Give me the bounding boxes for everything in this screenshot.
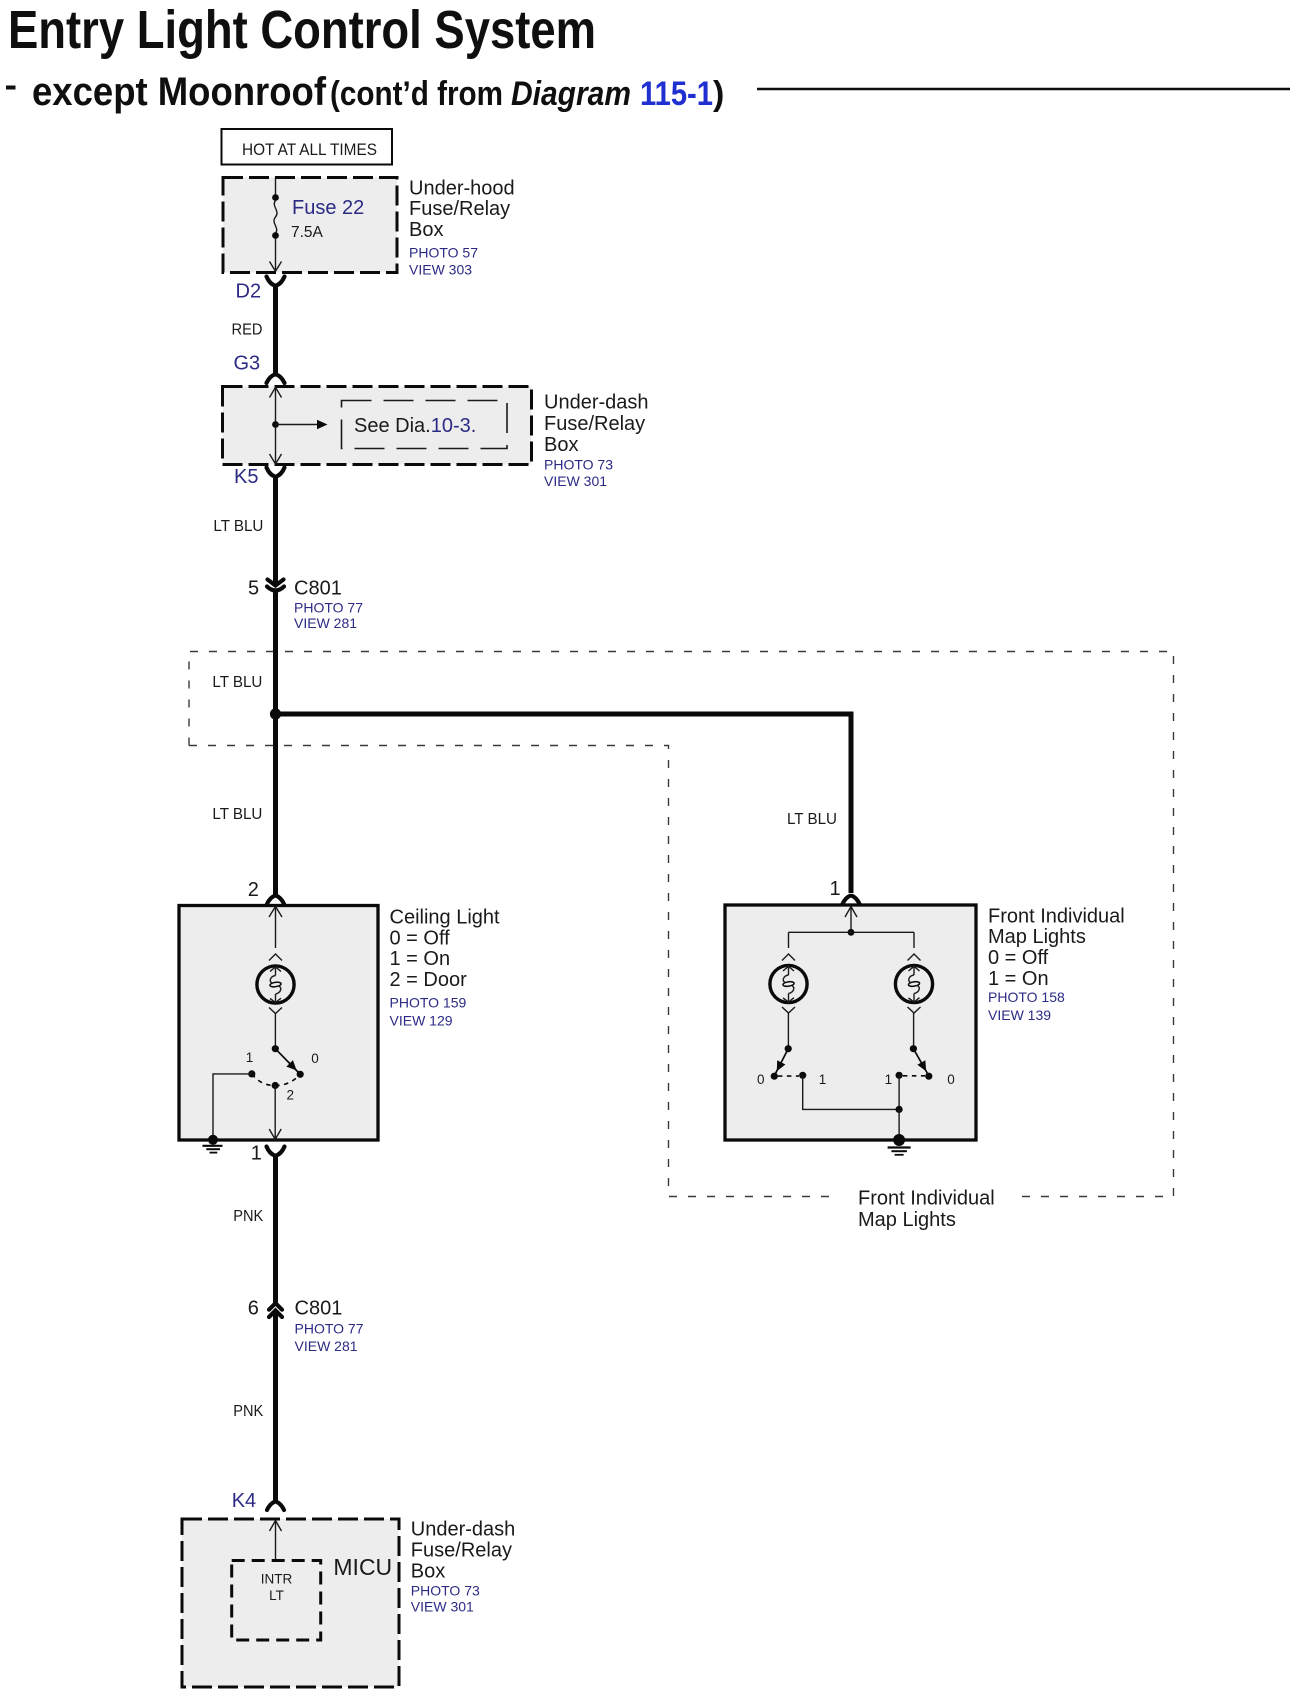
map lights ground G [888,1134,911,1155]
svg-text:K4: K4 [232,1490,256,1512]
map lights input lead with arrow [789,906,915,948]
title [8,0,596,60]
svg-text:VIEW 301: VIEW 301 [411,1599,474,1615]
connector D2 [236,277,285,303]
left map switch position dots 0 1 [757,1072,826,1087]
right map switch common node [910,1045,917,1052]
svg-text:Entry Light Control System: Entry Light Control System [8,0,596,60]
svg-text:VIEW 139: VIEW 139 [988,1007,1051,1023]
left map switch lever to position 0 [773,1049,789,1074]
svg-text:): ) [713,75,724,113]
svg-text:INTR: INTR [261,1572,293,1587]
svg-text:PNK: PNK [233,1403,264,1420]
svg-text:0: 0 [311,1051,319,1066]
svg-text:Under-dash: Under-dash [411,1518,516,1540]
svg-text:VIEW 301: VIEW 301 [544,473,607,489]
connector ceiling light pin 2 [248,879,284,904]
right map bulb B3 [895,965,932,1002]
connector C801 pin 6 [248,1298,364,1355]
wire PNK C801 to K4 [233,1311,275,1503]
svg-text:LT BLU: LT BLU [787,811,837,828]
svg-text:PHOTO 159: PHOTO 159 [390,995,467,1011]
dashed region label front individual map lights [858,1188,995,1231]
svg-text:PNK: PNK [233,1208,264,1225]
svg-text:PHOTO 158: PHOTO 158 [988,989,1065,1005]
svg-text:1: 1 [830,878,841,900]
svg-text:MICU: MICU [333,1554,392,1580]
svg-text:5: 5 [248,578,259,600]
svg-text:HOT AT ALL TIMES: HOT AT ALL TIMES [242,141,377,159]
right map switch dashed throw [903,1075,925,1077]
wire LT BLU C801-junction [212,593,275,715]
junction node [270,708,281,719]
left map switch common node [785,1045,792,1052]
svg-text:VIEW 303: VIEW 303 [409,262,472,278]
svg-text:Map Lights: Map Lights [988,926,1086,948]
svg-text:Front Individual: Front Individual [988,905,1125,927]
svg-text:C801: C801 [294,578,342,600]
svg-text:PHOTO 57: PHOTO 57 [409,244,478,260]
right map switch lever to position 0 [913,1049,930,1074]
svg-text:VIEW 129: VIEW 129 [390,1012,453,1028]
connector G3 [234,353,285,384]
svg-text:Front Individual: Front Individual [858,1188,995,1210]
connector K4 [232,1490,284,1512]
svg-text:Box: Box [411,1561,445,1583]
wire LT BLU K5-C801 [213,476,275,584]
wire LT BLU junction to map lights [276,714,852,893]
svg-text:2: 2 [248,879,259,901]
svg-text:1: 1 [246,1050,254,1065]
left map bulb socket chevron bottom [782,1007,795,1046]
right map switch position dots 1 0 [885,1072,955,1087]
ceiling light unit box [179,906,378,1141]
svg-text:Ceiling Light: Ceiling Light [390,906,501,928]
ceiling switch lever to position 0 [275,1049,300,1074]
svg-text:1: 1 [819,1072,827,1087]
see diagram 10-3 reference box [342,401,508,449]
right map bulb socket chevron bottom [908,1007,921,1046]
svg-text:0 = Off: 0 = Off [988,947,1049,969]
svg-text:VIEW 281: VIEW 281 [294,615,357,631]
svg-text:RED: RED [232,322,263,339]
svg-text:except Moonroof: except Moonroof [32,70,327,114]
wire LT BLU junction to ceiling light [212,714,275,896]
svg-text:1 = On: 1 = On [988,968,1049,990]
svg-text:2 = Door: 2 = Door [390,969,468,991]
front individual map lights unit box [725,905,976,1140]
svg-text:0: 0 [947,1072,955,1087]
svg-text:1 = On: 1 = On [390,948,451,970]
svg-text:G3: G3 [234,353,261,375]
svg-text:(cont’d from: (cont’d from [330,75,503,113]
svg-text:LT BLU: LT BLU [212,674,262,691]
left map bulb B2 [770,965,807,1002]
right map bulb socket chevron top [908,954,921,961]
ceiling light input lead with arrow [269,906,282,948]
svg-text:VIEW 281: VIEW 281 [295,1338,358,1354]
svg-text:PHOTO 73: PHOTO 73 [411,1583,480,1599]
connector C801 pin 5 [248,578,363,631]
subtitle [6,70,724,114]
dashed harness region boundary [189,652,1174,1197]
svg-text:1: 1 [885,1072,893,1087]
svg-text:Under-dash: Under-dash [544,392,649,414]
svg-text:115-1: 115-1 [640,75,713,113]
map lights caption [988,905,1125,1023]
svg-text:LT BLU: LT BLU [213,518,263,535]
svg-text:Box: Box [409,219,443,241]
ceiling light caption [390,906,501,1028]
svg-text:C801: C801 [295,1298,343,1320]
svg-text:LT: LT [269,1588,284,1603]
ceiling switch dashed throw arc [252,1074,300,1086]
svg-text:PHOTO 73: PHOTO 73 [544,457,613,473]
under-hood box caption [409,177,515,277]
svg-text:2: 2 [287,1088,295,1103]
svg-text:Fuse 22: Fuse 22 [292,197,364,219]
wire RED D2-G3 [232,285,276,375]
svg-text:6: 6 [248,1298,259,1320]
map switch position1 bus [803,1075,903,1138]
fuse F22 7.5A [270,178,365,272]
left map switch dashed throw [778,1075,799,1077]
svg-text:Fuse/Relay: Fuse/Relay [409,198,510,220]
ceiling switch common node [272,1045,279,1052]
svg-text:Under-hood: Under-hood [409,177,515,199]
connector K5 [234,466,285,488]
svg-text:Fuse/Relay: Fuse/Relay [544,413,645,435]
svg-text:Map Lights: Map Lights [858,1209,956,1231]
under-hood fuse/relay box [223,178,397,273]
svg-text:PHOTO 77: PHOTO 77 [294,600,363,616]
svg-text:0: 0 [757,1072,765,1087]
connector map lights pin 1 [830,878,860,904]
svg-text:1: 1 [251,1142,262,1164]
header rule [757,88,1290,91]
wire PNK ceiling to C801 [233,1154,275,1303]
ceiling light ground G [203,1135,223,1153]
HOT AT ALL TIMES label box [222,129,393,165]
connector ceiling light pin 1 [251,1142,285,1164]
ceiling switch output lead pin2 arrow [269,1086,281,1140]
svg-text:D2: D2 [236,281,262,303]
ceiling bulb socket chevron top [269,954,282,961]
MICU input lead with arrow [270,1521,282,1561]
svg-text:7.5A: 7.5A [291,224,324,241]
ceiling switch position dots 1 0 2 [246,1050,319,1103]
under-dash fuse/relay box MICU [182,1519,399,1687]
MICU box caption [411,1518,516,1614]
svg-text:PHOTO 77: PHOTO 77 [295,1320,364,1336]
svg-text:Diagram: Diagram [511,75,631,113]
svg-text:LT BLU: LT BLU [212,806,262,823]
svg-text:Box: Box [544,434,578,456]
svg-text:Fuse/Relay: Fuse/Relay [411,1539,512,1561]
svg-text:K5: K5 [234,466,258,488]
left map bulb socket chevron top [782,954,795,961]
svg-text:See Dia.10-3.: See Dia.10-3. [354,415,476,437]
under-dash box caption [544,392,649,490]
INTR LT module box [232,1561,321,1641]
under-dash fuse/relay box [223,387,532,465]
svg-text:0 = Off: 0 = Off [390,927,451,949]
ceiling bulb B1 [257,966,294,1003]
ceiling bulb socket chevron bottom [269,1008,282,1046]
MICU label [333,1554,392,1580]
ceiling switch position1 lead to ground [213,1074,252,1138]
